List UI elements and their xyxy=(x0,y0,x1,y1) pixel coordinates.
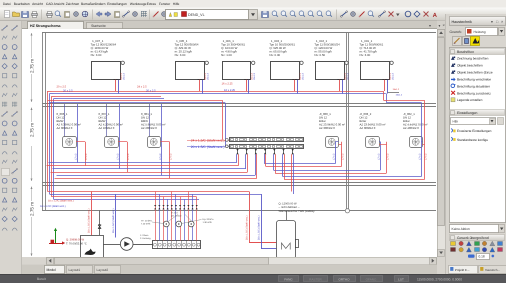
toolbar magnifier icon xyxy=(317,11,322,16)
circuit 0_006_1 return riser xyxy=(77,104,79,163)
radiator 1_006_1 valve xyxy=(244,79,250,81)
tool buttons row xyxy=(453,37,462,46)
manifold stub 7 down to basement return xyxy=(293,154,295,194)
radiator 1_003_1 valve xyxy=(292,79,298,81)
svg-text:17 x 2: 17 x 2 xyxy=(387,153,390,160)
status bar xyxy=(0,274,506,283)
lower manifold riser xyxy=(184,199,186,240)
panel item Beschriftung zurücksetz xyxy=(451,91,455,95)
distribution loop left blue xyxy=(49,162,237,164)
floor2 ceiling return right xyxy=(387,102,422,104)
svg-text:18 x 1.2/C (Stahl verz.): 18 x 1.2/C (Stahl verz.) xyxy=(48,200,74,203)
svg-text:17 x 2: 17 x 2 xyxy=(75,153,78,160)
palette icon xyxy=(2,54,6,58)
svg-text:1: Obere: 1: Obere xyxy=(140,234,149,237)
toolbar icon circle xyxy=(405,11,411,17)
basement run return 2 xyxy=(54,199,200,201)
svg-text:16 x 2.25: 16 x 2.25 xyxy=(224,89,236,92)
manifold outlet stub with arrows xyxy=(283,148,285,154)
toolbar icon arrowR xyxy=(105,12,111,17)
svg-text:Haustechnik: Haustechnik xyxy=(452,20,472,24)
svg-text:17 x 2: 17 x 2 xyxy=(419,153,422,160)
radiator 1_003_1 return drop xyxy=(297,79,299,93)
lower manifold riser xyxy=(155,192,157,241)
svg-text:▾: ▾ xyxy=(439,24,441,28)
toolbar magnifier icon xyxy=(299,11,304,16)
svg-text:Startseite: Startseite xyxy=(91,24,106,28)
floor1 supply branch 2 xyxy=(56,96,162,98)
lower manifold riser xyxy=(192,194,194,241)
radiator 1_003_1 supply drop xyxy=(294,79,296,91)
heating circuit -0_000_1 symbol xyxy=(326,137,339,148)
circuit -0_002_1 supply riser xyxy=(424,100,426,179)
svg-text:V: 2.5 l: V: 2.5 l xyxy=(171,212,178,215)
palette icon xyxy=(2,25,8,31)
toolbar icon arrowL xyxy=(96,12,102,17)
manifold outlet stub with arrows xyxy=(274,148,276,154)
svg-text:HBr: HBr xyxy=(453,119,459,123)
panel header Gewerk übergreifend xyxy=(450,235,505,241)
toolbar magnifier icon xyxy=(290,11,295,16)
svg-text:Einstellungen: Einstellungen xyxy=(457,111,477,115)
svg-text:20 x 2.5: 20 x 2.5 xyxy=(63,89,73,92)
toolbar icon gear xyxy=(162,12,167,17)
ceiling line xyxy=(42,32,436,34)
distribution loop right blue xyxy=(283,176,422,178)
svg-text:17 x 2: 17 x 2 xyxy=(333,153,336,160)
riser pair A return xyxy=(49,94,51,195)
svg-text:HZ Strangschema: HZ Strangschema xyxy=(30,24,62,28)
manifold outlet stub with arrows xyxy=(246,148,248,154)
tank top connection xyxy=(286,211,288,220)
palette icon xyxy=(2,140,6,144)
svg-text:Nv: 6.50: Nv: 6.50 xyxy=(314,53,325,57)
svg-text:AZ 200/RZ 0: AZ 200/RZ 0 xyxy=(141,126,157,130)
strand pump 1 xyxy=(163,221,169,227)
svg-text:RASTER: RASTER xyxy=(309,277,322,281)
tank supply riser xyxy=(249,192,251,243)
fill valve xyxy=(98,225,101,229)
palette icon xyxy=(2,160,7,164)
svg-text:Datei: Datei xyxy=(3,2,11,6)
svg-text:Keine Aktion: Keine Aktion xyxy=(452,227,470,231)
toolbar icon cross xyxy=(424,12,429,17)
toolbar magnifier icon xyxy=(272,11,277,16)
floor 2/3 slab double line xyxy=(42,182,436,184)
zoom row xyxy=(468,255,475,258)
svg-text:Projekt E...: Projekt E... xyxy=(455,268,470,272)
circuit -0_000_1 return riser xyxy=(335,142,337,164)
svg-text:Ansicht: Ansicht xyxy=(32,2,43,6)
svg-text:A: A xyxy=(433,12,438,19)
panel item Beschriftung aktualisier xyxy=(451,84,455,88)
svg-text:20 x 2.5: 20 x 2.5 xyxy=(146,89,156,92)
gewerk icon xyxy=(490,247,495,252)
toolbar magnifier icon xyxy=(308,11,313,16)
distribution loop right red xyxy=(266,166,342,168)
svg-text:15x1.2: 15x1.2 xyxy=(120,72,123,80)
svg-text:Einstellungen: Einstellungen xyxy=(107,2,127,6)
floor1 return main (blue) xyxy=(54,93,386,95)
radiator 1_004_1 valve xyxy=(337,79,343,81)
radiator 1_005_1 supply drop xyxy=(199,79,201,91)
svg-text:DEND_VL: DEND_VL xyxy=(188,13,205,17)
panel header Einstellungen xyxy=(450,110,505,116)
palette icon xyxy=(12,54,16,58)
radiator 1_007_1 return drop xyxy=(118,79,120,93)
svg-text:15x1.2: 15x1.2 xyxy=(299,72,302,80)
svg-text:Q: 30908.00 W: Q: 30908.00 W xyxy=(66,238,85,241)
radiator 1_001_1 return drop xyxy=(387,79,389,93)
svg-text:15x1.2: 15x1.2 xyxy=(392,72,395,80)
palette icon xyxy=(2,188,6,192)
svg-text:28 x 1.5/C (Stahl verz.): 28 x 1.5/C (Stahl verz.) xyxy=(258,215,261,240)
circuit -0_003_2 return riser xyxy=(380,142,382,170)
palette icon xyxy=(12,93,17,97)
svg-text:Fenster: Fenster xyxy=(159,2,171,6)
lower manifold riser xyxy=(196,197,198,241)
gewerk icon xyxy=(459,248,463,252)
palette icon xyxy=(12,85,17,88)
radiator 1_004_1 return drop xyxy=(342,79,344,93)
drawing canvas xyxy=(22,29,437,257)
palette icon xyxy=(2,131,6,135)
svg-text:FANG: FANG xyxy=(284,277,293,281)
palette icon xyxy=(12,121,17,126)
svg-text:Bearbeiten: Bearbeiten xyxy=(14,2,30,6)
boiler fill line xyxy=(99,211,101,235)
svg-text:2.75 m: 2.75 m xyxy=(30,123,35,137)
svg-text:1.30 m³/h: 1.30 m³/h xyxy=(203,221,213,224)
gewerk icon xyxy=(466,247,471,252)
svg-text:TF: 20 kPa: TF: 20 kPa xyxy=(141,220,152,223)
svg-text:Bereit: Bereit xyxy=(37,277,46,281)
gewerk icon xyxy=(498,242,503,246)
manifold outlet stub with arrows xyxy=(265,148,267,154)
radiator 1_001_1 valve xyxy=(382,79,388,81)
circuit ceiling feed 2 xyxy=(106,104,108,137)
svg-text:Objekt beschriften (Einze: Objekt beschriften (Einze xyxy=(457,70,493,74)
toolbar icon clip xyxy=(65,12,70,18)
toolbar icon cross xyxy=(389,12,394,17)
radiator 1_004_1 supply drop xyxy=(339,79,341,91)
radiator 1_004_1 xyxy=(316,62,345,80)
palette icon xyxy=(12,228,17,231)
settings combobox xyxy=(451,118,496,125)
lower manifold riser xyxy=(180,197,182,241)
toolbar icon gear xyxy=(133,12,138,17)
palette icon xyxy=(2,121,7,126)
svg-text:28 x 1.5/C (Stahl verz.): 28 x 1.5/C (Stahl verz.) xyxy=(246,215,249,240)
floor1 supply main (red) xyxy=(52,91,384,93)
radiator 1_003_1 air vent xyxy=(300,61,303,64)
svg-text:Haustech...: Haustech... xyxy=(485,268,500,272)
svg-text:Zeichnen: Zeichnen xyxy=(66,2,80,6)
model/layout tabs xyxy=(22,265,437,274)
svg-text:Bemaßen: Bemaßen xyxy=(81,2,95,6)
circuit -0_002_1 return riser xyxy=(421,103,423,177)
toolbar icon page xyxy=(5,11,10,18)
radiator 1_005_1 xyxy=(176,62,205,80)
tank return riser xyxy=(261,194,263,249)
manifold feed return drop xyxy=(225,103,227,147)
floor2 ceiling supply right xyxy=(384,100,425,102)
svg-text:Beschriften: Beschriften xyxy=(457,50,474,54)
svg-text:Dp: 20 kPa: Dp: 20 kPa xyxy=(203,218,215,221)
svg-text:▾: ▾ xyxy=(429,23,431,28)
svg-text:Wärmetauscher TWE (Ladesy.: Wärmetauscher TWE (Ladesy. xyxy=(279,210,316,213)
palette icon xyxy=(2,169,10,176)
svg-text:Heizung: Heizung xyxy=(474,30,486,34)
svg-text:17 x 2: 17 x 2 xyxy=(117,153,120,160)
palette icon xyxy=(12,131,16,135)
leader lines xyxy=(152,222,164,224)
palette icon xyxy=(12,198,16,202)
palette icon xyxy=(2,64,7,69)
palette icon xyxy=(2,198,6,202)
toolbar icon disk xyxy=(22,12,29,18)
heating circuit -0_002_1 symbol xyxy=(410,137,423,148)
boiler supply riser xyxy=(91,192,93,236)
svg-text:24 x 1.5/C (Stahl verz.): 24 x 1.5/C (Stahl verz.) xyxy=(191,138,225,142)
palette icon xyxy=(2,85,7,88)
pump-manifold connection xyxy=(133,244,152,246)
gewerk icon xyxy=(459,241,463,245)
riser pair B supply xyxy=(51,96,53,197)
toolbar icon mag xyxy=(368,11,373,16)
svg-text:ORTHO: ORTHO xyxy=(338,277,350,281)
toolbar magnifier icon xyxy=(326,11,331,16)
svg-text:15x1.2: 15x1.2 xyxy=(207,72,210,80)
svg-text:24 x 2.5: 24 x 2.5 xyxy=(137,85,147,88)
toolbar icon pen xyxy=(153,12,159,18)
palette icon xyxy=(12,152,17,155)
status toggle ORTHO xyxy=(334,276,356,282)
boiler xyxy=(81,236,104,259)
radiator 1_007_1 valve xyxy=(114,79,120,81)
svg-text:Q: 12000.00 W: Q: 12000.00 W xyxy=(279,202,298,205)
svg-text:15x1.2: 15x1.2 xyxy=(344,72,347,80)
svg-text:Extras: Extras xyxy=(147,2,157,6)
manifold outlet stub with arrows xyxy=(292,148,294,154)
palette icon xyxy=(2,207,7,211)
svg-text:0.18: 0.18 xyxy=(479,255,485,259)
svg-text:AZ 100/RZ 0: AZ 100/RZ 0 xyxy=(99,126,115,130)
active yellow tool button xyxy=(471,37,480,46)
svg-text:Objekt beschriften: Objekt beschriften xyxy=(457,63,483,67)
radiator 1_001_1 xyxy=(361,62,390,80)
palette icon xyxy=(2,93,7,97)
svg-text:AZ 300/RZ 0: AZ 300/RZ 0 xyxy=(319,126,335,130)
toolbar icon dline xyxy=(341,12,347,17)
tab Startseite xyxy=(87,23,123,29)
svg-text:Layout1: Layout1 xyxy=(69,268,81,272)
horizontal scrollbar xyxy=(22,257,437,265)
menu bar xyxy=(0,0,506,8)
floor1 return branch 2 xyxy=(58,98,165,100)
distribution loop left blue xyxy=(53,168,246,170)
svg-text:Hilfe: Hilfe xyxy=(173,2,180,6)
toolbar icon printer xyxy=(47,14,53,16)
palette icon xyxy=(12,216,17,221)
palette icon xyxy=(2,152,7,155)
manifold feed supply drop xyxy=(222,100,224,140)
floor2 ceiling supply xyxy=(48,100,223,102)
toolbar icon grid xyxy=(141,11,147,13)
toolbar icon pen xyxy=(359,12,365,18)
svg-text:15x1.2: 15x1.2 xyxy=(396,94,403,97)
palette icon xyxy=(12,178,17,183)
circuit ceiling feed 3 xyxy=(149,104,151,137)
palette icon xyxy=(12,140,16,144)
svg-text:15x1.2: 15x1.2 xyxy=(253,72,256,80)
svg-text:17 x 2: 17 x 2 xyxy=(425,153,428,160)
svg-text:17 x 2: 17 x 2 xyxy=(85,153,88,160)
svg-text:Gewerk übergreifend: Gewerk übergreifend xyxy=(457,236,489,240)
radiator 1_007_1 supply drop xyxy=(115,79,117,91)
basement run return 1 xyxy=(50,194,262,196)
toolbar icon clip xyxy=(115,12,120,18)
heating circuit -0_003_2 symbol xyxy=(366,137,380,148)
toolbar icon dline xyxy=(379,12,385,17)
distribution loop right red xyxy=(284,179,424,181)
radiator 1_005_1 return drop xyxy=(202,79,204,93)
circuit 0_007_1 return riser xyxy=(119,104,121,169)
panel header Beschriften xyxy=(450,49,505,55)
panel item Zeichnung beschriften xyxy=(451,56,455,60)
storey dimension line xyxy=(31,187,33,202)
toolbar icon dline xyxy=(123,12,129,17)
svg-text:AZ 300/RZ 0: AZ 300/RZ 0 xyxy=(360,126,376,130)
radiator 1_006_1 return drop xyxy=(248,79,250,93)
left tool palette xyxy=(0,21,22,274)
riser pair A supply xyxy=(47,91,49,192)
palette icon xyxy=(2,111,8,117)
svg-text:15x1.2: 15x1.2 xyxy=(347,72,350,80)
gewerk icon xyxy=(451,242,456,246)
palette icon xyxy=(12,102,17,107)
panel title bar Haustechnik xyxy=(450,17,506,26)
svg-text:28 x 1.5/C (Stahl verz.): 28 x 1.5/C (Stahl verz.) xyxy=(112,208,115,233)
svg-text:15x1.2: 15x1.2 xyxy=(204,72,207,80)
basement run supply 1 xyxy=(48,191,250,193)
distribution loop left red xyxy=(51,172,248,174)
circuit 0_001_1 supply riser xyxy=(161,141,170,143)
svg-text:Ändern: Ändern xyxy=(95,2,106,6)
lower manifold riser xyxy=(171,192,173,241)
lower manifold riser xyxy=(188,192,190,241)
svg-text:20 x 2.5: 20 x 2.5 xyxy=(57,85,67,88)
svg-text:▾: ▾ xyxy=(491,20,493,24)
svg-text:2: Heizung: 2: Heizung xyxy=(140,237,151,240)
svg-text:Nv: 3.00: Nv: 3.00 xyxy=(91,53,102,57)
svg-text:16 x 2.25: 16 x 2.25 xyxy=(222,83,234,86)
layer combobox DEND_VL xyxy=(166,10,249,20)
lower manifold riser xyxy=(159,194,161,241)
status toggle RASTER xyxy=(304,276,328,282)
palette icon xyxy=(12,207,17,211)
svg-text:-- nicht definiert --: -- nicht definiert -- xyxy=(279,206,300,209)
vertical scrollbar controls xyxy=(437,21,446,29)
palette icon xyxy=(12,168,18,174)
svg-text:17 x 2: 17 x 2 xyxy=(378,153,381,160)
left wall double line xyxy=(42,32,44,211)
palette icon xyxy=(12,45,17,50)
riser pair B return xyxy=(53,99,55,200)
storey dimension line xyxy=(31,108,33,123)
lower manifold xyxy=(153,241,201,249)
svg-text:Legende erstellen: Legende erstellen xyxy=(457,98,483,102)
svg-text:15x1.2: 15x1.2 xyxy=(302,72,305,80)
svg-text:15x1.2: 15x1.2 xyxy=(123,72,126,80)
toolbar icon glob xyxy=(82,11,88,17)
radiator 1_007_1 xyxy=(92,62,121,80)
toolbar magnifier icon xyxy=(281,11,286,16)
heating circuit 0_007_1 symbol xyxy=(105,137,119,148)
status toggle LST xyxy=(395,276,409,282)
gewerk icon xyxy=(451,248,456,252)
radiator 1_004_1 air vent xyxy=(345,61,348,64)
node on ground line xyxy=(345,209,349,213)
palette icon xyxy=(2,45,7,50)
pump xyxy=(120,238,133,251)
circuit 0_001_1 return riser xyxy=(161,104,163,175)
svg-text:Nv: 3.00: Nv: 3.00 xyxy=(175,53,186,57)
radiator 1_006_1 xyxy=(223,62,251,80)
boiler-pump connection xyxy=(104,244,121,246)
lower manifold riser xyxy=(167,199,169,240)
manifold feed line red xyxy=(187,140,229,142)
radiator 1_003_1 xyxy=(271,62,300,80)
palette icon xyxy=(2,228,7,231)
right panel background xyxy=(445,14,506,274)
svg-text:15x1.2: 15x1.2 xyxy=(393,88,400,91)
toolbar icon diamond xyxy=(414,11,420,17)
upper manifold supply bar xyxy=(230,138,304,142)
gewerk icon xyxy=(475,248,480,252)
storey dimension line xyxy=(31,33,33,58)
gewerk icon xyxy=(475,242,480,246)
distribution loop left blue xyxy=(57,175,256,177)
manifold feed line blue xyxy=(187,146,229,148)
status toggle OFANG xyxy=(361,276,383,282)
palette icon xyxy=(2,178,7,183)
radiator 1_001_1 air vent xyxy=(390,61,393,64)
gewerk icon xyxy=(482,248,486,252)
burner symbol xyxy=(85,249,96,256)
svg-text:Werkzeuge: Werkzeuge xyxy=(130,2,147,6)
svg-text:Beschriftung verschiebe: Beschriftung verschiebe xyxy=(457,77,491,81)
palette icon xyxy=(12,64,17,69)
svg-text:16 x 1.2/C (Stahl verz.): 16 x 1.2/C (Stahl verz.) xyxy=(40,205,66,208)
status toggle FANG xyxy=(279,276,299,282)
gewerk icon xyxy=(498,248,503,252)
pump return riser xyxy=(115,194,117,238)
strand pump 2 xyxy=(176,221,182,227)
toolbar icon gear xyxy=(74,12,79,17)
svg-text:Zeichnung beschriften: Zeichnung beschriften xyxy=(457,57,489,61)
palette icon xyxy=(12,188,16,192)
manifold outlet stub with arrows xyxy=(237,148,239,154)
svg-text:OFANG: OFANG xyxy=(366,277,377,281)
distribution loop right blue xyxy=(274,170,381,172)
toolbar icon printer xyxy=(32,14,38,16)
svg-text:Nv: 1.00: Nv: 1.00 xyxy=(221,53,232,57)
distribution loop left red xyxy=(55,178,257,180)
upper manifold return bar xyxy=(230,145,304,149)
item Erweiterte Einstellungen xyxy=(451,128,453,132)
radiator 1_007_1 air vent xyxy=(121,61,124,64)
